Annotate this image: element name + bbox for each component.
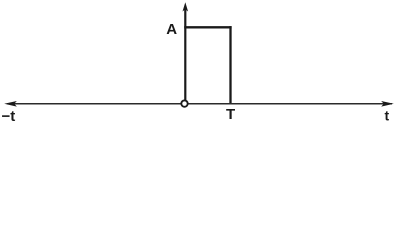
svg-text:t: t: [385, 108, 390, 124]
wire pulse top: [184, 26, 231, 28]
node origin open circle: [181, 100, 187, 106]
wire vertical axis: [184, 8, 186, 100]
node right axis arrowhead: [381, 101, 394, 107]
svg-text:A: A: [166, 21, 177, 38]
wire pulse right edge: [229, 26, 231, 103]
wire horizontal t-axis: [7, 103, 392, 105]
svg-text:−t: −t: [2, 108, 16, 125]
node vertical axis arrowhead: [183, 2, 189, 11]
node left axis arrowhead: [4, 101, 17, 107]
svg-text:T: T: [226, 106, 235, 123]
